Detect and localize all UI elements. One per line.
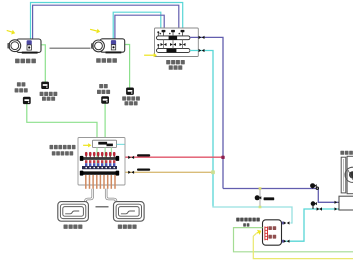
zone valve V1 on distributor: [160, 30, 166, 36]
label heater-label2: [243, 223, 249, 226]
label progR-line2: [97, 90, 110, 94]
pipe cyan return riser: [190, 51, 213, 207]
pipe red floor heating supply: [119, 156, 224, 158]
yellow arrow at wiring centre: [83, 143, 91, 147]
valve bar symbol: [264, 197, 275, 200]
valve on FCU1: [27, 40, 32, 50]
valve on FCU2: [111, 40, 116, 50]
yellow arrow at FCU2 fan: [90, 29, 100, 34]
junction dots on bypass: [259, 187, 262, 190]
zone valve V3 on distributor: [179, 30, 185, 36]
label fcu2ctl-line1: [122, 96, 140, 100]
fan coil unit 1 fan: [8, 40, 21, 52]
label mleft-line2: [52, 151, 73, 155]
buffer tank: [263, 220, 282, 245]
bypass line: [259, 189, 261, 208]
wire purple bus FCU1 to distributor valve: [33, 5, 179, 41]
pipe orange floor heating return: [119, 171, 214, 173]
floor coil right: [114, 202, 145, 222]
arrows into heat pump bottom port: [335, 207, 341, 210]
check valve on purple main: [316, 187, 319, 190]
yellow arrow at heater: [257, 230, 262, 235]
balance valve B3 between manifolds: [180, 40, 186, 49]
hydraulic balance distributor box: [155, 28, 199, 57]
connector dash between coils: [96, 206, 109, 208]
fan coil unit 2 body: [100, 39, 125, 54]
label fcu2: [96, 58, 117, 63]
manifold middle bar (flow meters): [82, 166, 117, 169]
label tank-line2: [268, 235, 276, 239]
manifold station box: [78, 138, 125, 186]
manifold return bar: [80, 171, 119, 176]
pipe cyan tank bottom to heat pump: [285, 209, 341, 241]
wire purple bus FCU2 to distributor valve: [115, 15, 164, 40]
thermostat FCU2 controller: [126, 88, 134, 95]
arrows at tank top port: [284, 221, 290, 224]
yellow arrow at FCU1 fan: [7, 30, 16, 35]
label progR-line1: [99, 84, 108, 88]
label dist-line1: [166, 60, 185, 64]
label fcu1: [15, 59, 36, 64]
floor coil left: [58, 202, 89, 222]
fan coil unit 2 fan: [92, 40, 105, 52]
wire green actuator leads inside manifold: [96, 148, 98, 169]
pump P1 on purple main: [310, 183, 317, 188]
wire cyan bus FCU2 to distributor valve: [113, 12, 161, 40]
distributor return manifold: [157, 48, 191, 52]
wire green progR controller to wiring centre: [104, 103, 106, 141]
label coilR: [118, 225, 137, 229]
insulation bar on supply: [137, 154, 150, 156]
thermostat programming controller R: [101, 96, 109, 103]
junction orange-cyan: [211, 170, 215, 174]
heat pump base unit: [339, 196, 353, 210]
wire cyan bus FCU1 to distributor valve: [31, 3, 183, 42]
pipe between fan coils: [50, 47, 91, 49]
pipe to right coil: [106, 189, 116, 202]
pipe purple supply riser: [190, 37, 223, 188]
red valve caps row: [85, 152, 115, 157]
thermostat FCU1 controller: [41, 82, 49, 89]
pipe to left coil: [86, 189, 93, 202]
wire green progL controller to wiring centre: [27, 104, 97, 141]
insulation bar on return: [137, 169, 150, 171]
pump P2 on bypass: [255, 195, 262, 200]
wire green FCU1 to controller: [32, 45, 46, 82]
label mleft-line1: [50, 145, 76, 149]
arrows at tank bottom port: [284, 240, 290, 243]
wiring centre in manifold box: [93, 140, 117, 147]
pipe purple to heat pump: [223, 189, 341, 203]
pump P3 on tank-HP line: [311, 201, 317, 206]
electric heater element in tank: [265, 227, 268, 241]
label dist-line2: [169, 65, 183, 69]
label fcu2ctl-line2: [125, 101, 138, 105]
balance valve B1 between manifolds: [161, 40, 167, 49]
wire green FCU2 to controller: [118, 45, 130, 89]
stub on left end of manifolds: [157, 31, 159, 48]
label progL-line2: [15, 88, 28, 92]
yellow arrow into distributor: [144, 53, 157, 57]
distributor supply manifold: [157, 36, 191, 40]
pipe pale cyan run to tank: [213, 206, 292, 223]
coloured connectors between bars: [85, 160, 115, 166]
zone valve V2 on distributor: [169, 30, 175, 36]
wire yellow heater to heat pump: [253, 234, 353, 259]
balance valve B2 between manifolds: [170, 40, 176, 49]
junction red-purple: [221, 156, 224, 159]
label progL-line1: [17, 82, 26, 86]
thermostat programming controller L: [23, 97, 31, 104]
heat pump outdoor unit: [341, 156, 353, 193]
label hp-label: [340, 151, 353, 155]
wire green tank to heat pump: [234, 228, 353, 252]
label coilL: [64, 225, 83, 229]
label tank-line1: [268, 226, 276, 230]
arrows into heat pump top port: [335, 201, 341, 204]
manifold supply bar: [80, 156, 119, 161]
label fcu1ctl-line2: [42, 97, 55, 101]
label fcu1ctl-line1: [40, 92, 58, 96]
loop pipes below manifold: [86, 175, 115, 189]
valve on tank-HP line: [317, 207, 322, 211]
label heater-label: [236, 218, 260, 222]
cyan stub from wiring centre: [117, 143, 125, 145]
fan coil unit 1 body: [17, 39, 42, 54]
